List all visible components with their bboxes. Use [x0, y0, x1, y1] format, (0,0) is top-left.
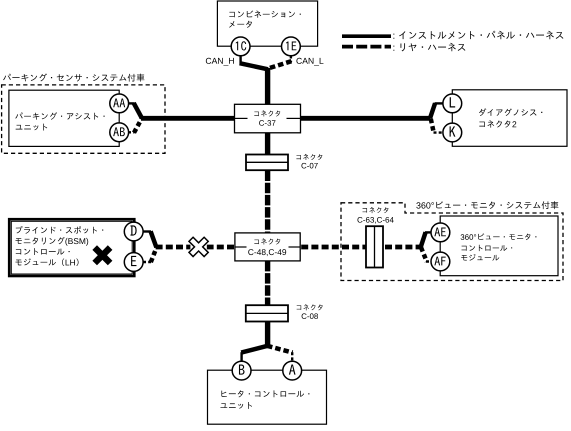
label 360 view monitor system — [416, 201, 558, 209]
label parking sensor system — [3, 74, 144, 82]
box combination meter — [217, 1, 317, 46]
box diagnosis connector 2 — [452, 90, 567, 147]
pin AF — [431, 252, 450, 271]
wire stub inside C-37 right — [287, 117, 301, 119]
wire C-63 to 360 module split (dashed) — [383, 245, 421, 250]
wire 1E branch (dashed) — [267, 61, 291, 69]
legend solid line sample — [342, 34, 391, 38]
label combination meter — [229, 10, 301, 27]
wire E branch (dashed) — [151, 248, 157, 262]
label BSM control module — [15, 226, 103, 266]
wire AB branch (dashed) — [134, 118, 142, 132]
wire D lead — [143, 230, 151, 232]
wire AA branch — [134, 103, 142, 118]
box 360 view monitor control module — [440, 216, 558, 276]
wire trunk meter to C-37 — [265, 68, 270, 105]
label connector C-08 — [297, 304, 323, 319]
box parking assist unit — [9, 90, 119, 146]
wire K lead (dashed) — [434, 131, 444, 133]
wire AF branch (dashed) — [421, 247, 427, 261]
label connector C-37 — [254, 110, 280, 125]
pin AA — [110, 94, 129, 113]
label connector C-63,C-64 — [357, 207, 393, 224]
wire D branch — [151, 231, 157, 247]
label diagnosis connector 2 — [479, 108, 542, 127]
box BSM control module — [9, 219, 134, 276]
pin 1E — [282, 37, 301, 56]
label connector C-07 — [296, 154, 322, 169]
label heater control unit — [220, 390, 309, 409]
label connector C-48,C-49 — [248, 238, 286, 256]
wire K branch (dashed) — [431, 119, 434, 133]
wire trunk C-07 to C-48 (dashed) — [265, 171, 270, 233]
wire L lead — [435, 102, 444, 104]
connector C-37 box — [235, 104, 301, 133]
BSM fault mark (black X) — [92, 245, 112, 265]
pin A — [283, 361, 302, 380]
wire AA lead — [128, 102, 135, 104]
connector C-07 — [246, 155, 288, 171]
region 360 view monitor system (dashed) — [341, 203, 563, 281]
pin AB — [110, 123, 129, 142]
wire A branch (dashed) — [267, 346, 293, 353]
wire A lead (dashed) — [291, 352, 293, 362]
wire C-48 to C-63 (dashed) — [300, 245, 366, 250]
wire trunk C-37 to C-07 — [265, 133, 270, 155]
wire AE lead — [425, 231, 432, 233]
wire parking to C-37 — [141, 116, 235, 121]
pin E — [124, 253, 143, 272]
wire trunk C-48 to C-08 (dashed) — [265, 261, 270, 305]
wire 1C branch — [240, 63, 268, 69]
wire B lead — [240, 352, 242, 362]
box heater control unit — [208, 370, 327, 424]
no-connection mark (white X) — [189, 237, 208, 256]
wire E lead (dashed) — [143, 261, 151, 263]
pin AE — [431, 223, 450, 242]
wire 1C lead — [239, 56, 241, 65]
label CAN_H — [206, 58, 234, 66]
pin 1C — [231, 37, 250, 56]
label CAN_L — [296, 58, 323, 66]
legend dashed label — [393, 43, 465, 52]
region parking sensor system (dashed) — [2, 85, 165, 153]
wire BSM to C-48 (dashed) — [156, 245, 235, 250]
label parking assist unit — [15, 112, 104, 130]
pin K — [443, 123, 462, 142]
connector C-63,C-64 — [366, 226, 383, 267]
wire AF lead (dashed) — [426, 260, 432, 262]
wire trunk C-08 to heater split — [265, 322, 270, 347]
label 360 view monitor control module — [461, 233, 537, 260]
wire L branch — [430, 103, 435, 118]
pin D — [124, 222, 143, 241]
wire B branch — [241, 346, 268, 353]
wire AE branch — [421, 232, 426, 247]
connector C-48,C-49 box — [235, 233, 300, 261]
pin B — [232, 361, 251, 380]
pin L — [443, 94, 462, 113]
legend dashed line sample — [342, 45, 391, 49]
wire C-37 to diagnosis — [301, 116, 431, 121]
legend solid label — [393, 31, 563, 39]
connector C-08 — [246, 305, 288, 321]
wire AB lead (dashed) — [128, 131, 135, 133]
wire 1E lead (dashed) — [290, 56, 292, 63]
wire stub inside C-48 left — [235, 246, 247, 248]
wire stub inside C-37 left — [235, 117, 248, 119]
wire stub inside C-48 right — [289, 246, 301, 248]
